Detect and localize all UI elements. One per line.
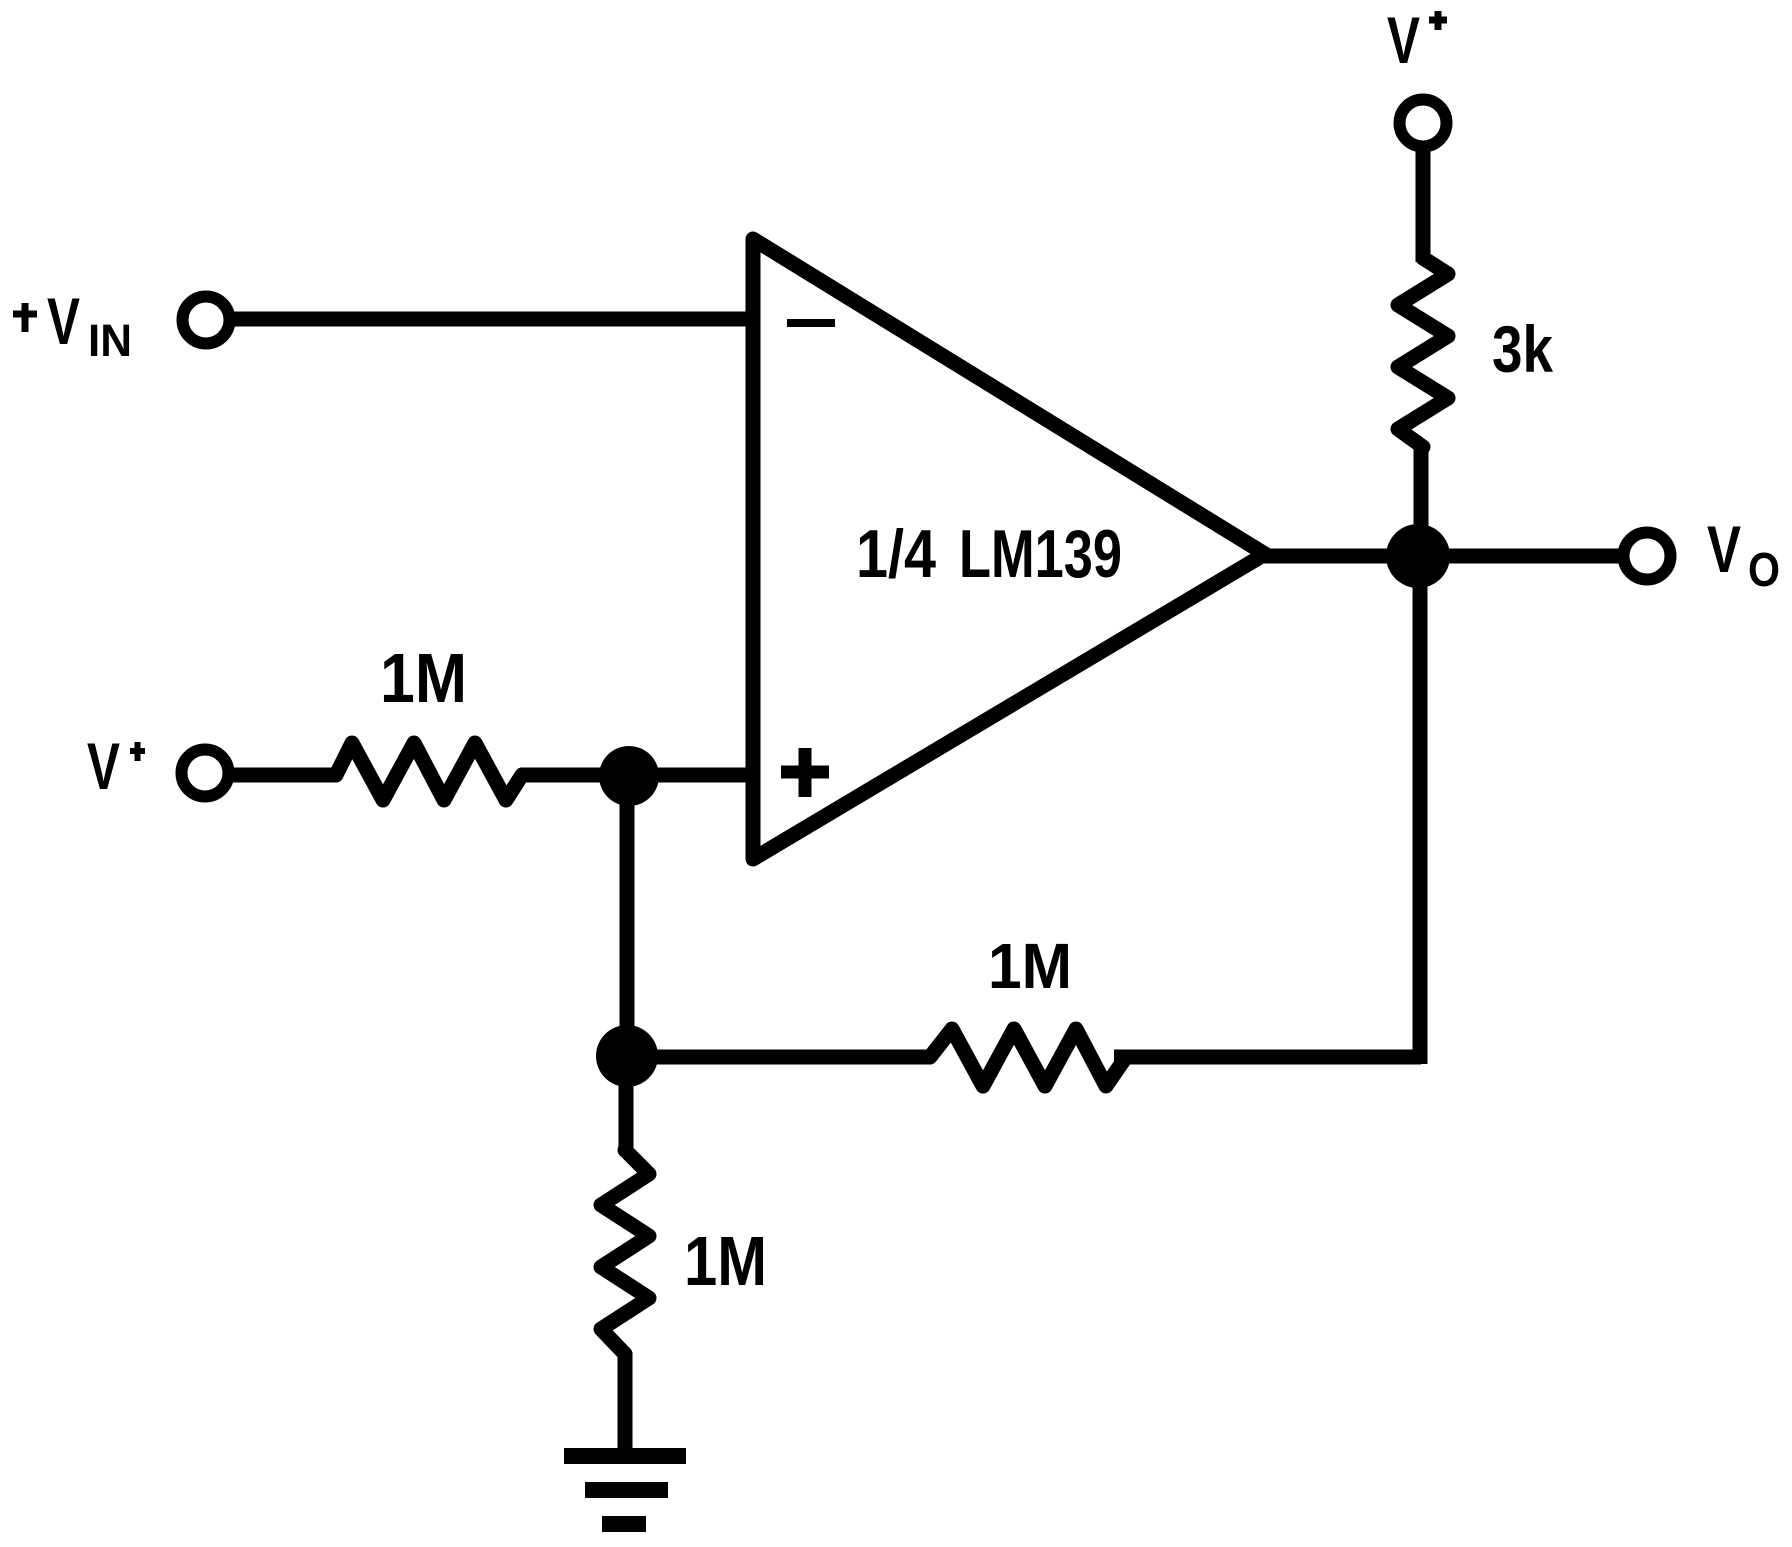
svg-text:IN: IN — [88, 315, 132, 366]
wire feedback resistor to output branch — [1114, 1050, 1421, 1065]
node V+ left terminal — [182, 750, 229, 797]
svg-text:1M: 1M — [684, 1222, 767, 1300]
svg-text:LM139: LM139 — [959, 516, 1122, 592]
svg-text:3k: 3k — [1492, 312, 1553, 386]
wire node A down to node B — [620, 776, 635, 1060]
label VO — [1707, 512, 1780, 597]
wire node B down to R4 — [619, 1056, 634, 1152]
label V+ top — [1387, 3, 1447, 77]
node VIN terminal — [183, 297, 230, 344]
svg-text:V: V — [87, 729, 120, 803]
svg-text:V: V — [1707, 512, 1741, 586]
wire VIN to inverting input — [229, 312, 750, 327]
resistor R3 3k — [1398, 258, 1448, 447]
wire resistor to noninverting input — [520, 768, 750, 783]
node V+ top terminal — [1400, 100, 1447, 147]
wire output branch vertical — [1413, 556, 1428, 1064]
wire V+ top to R3 — [1416, 148, 1431, 262]
svg-text:1/4: 1/4 — [856, 516, 936, 592]
node B junction dot — [596, 1025, 658, 1087]
node VO terminal — [1624, 533, 1671, 580]
resistor R4 1M to ground — [601, 1150, 649, 1354]
svg-text:V: V — [1387, 3, 1420, 77]
wire R4 to ground — [618, 1352, 633, 1456]
svg-text:O: O — [1748, 544, 1780, 597]
label +VIN — [13, 284, 132, 366]
wire V+ to resistor — [228, 768, 338, 783]
svg-text:V: V — [47, 284, 80, 358]
svg-text:1M: 1M — [380, 639, 467, 717]
node A junction dot — [599, 746, 659, 806]
wire op-amp output — [1262, 549, 1620, 564]
resistor R1 1M — [336, 743, 522, 800]
label V+ left — [87, 729, 145, 803]
wire R3 to output node — [1414, 445, 1429, 560]
resistor R2 1M feedback — [930, 1029, 1126, 1086]
ground — [564, 1456, 686, 1524]
op-amp U1 1/4 LM139 — [753, 239, 1265, 859]
wire node B to feedback resistor — [627, 1050, 932, 1065]
node output junction dot — [1386, 524, 1450, 588]
svg-text:1M: 1M — [988, 930, 1072, 1002]
